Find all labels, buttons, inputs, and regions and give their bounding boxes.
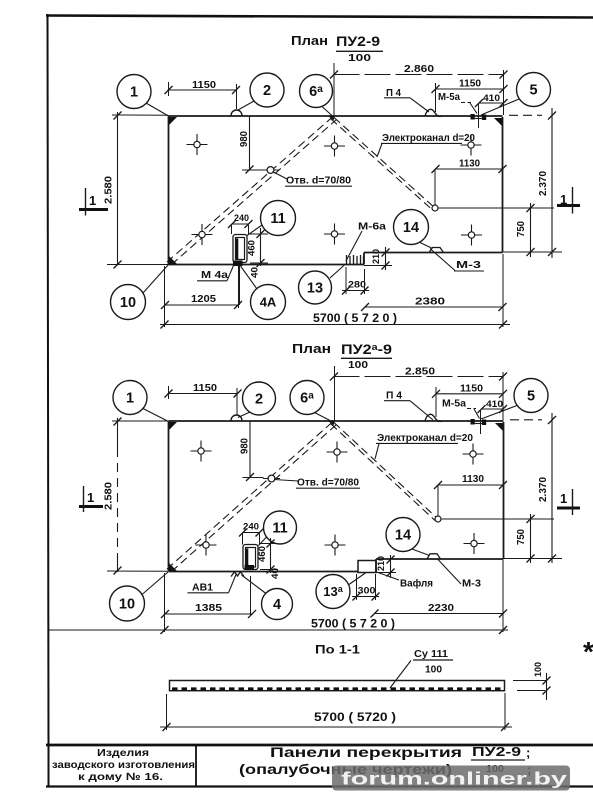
svg-text:10: 10 (120, 295, 136, 311)
M-6a hatch marks on bottom edge (346, 255, 348, 265)
svg-text:2.580: 2.580 (104, 482, 115, 510)
svg-text:1: 1 (126, 391, 134, 407)
dimension 1150 right top (435, 88, 504, 90)
svg-text:280: 280 (348, 280, 366, 291)
mounting point cross (191, 441, 212, 462)
dimension 240 slot (232, 223, 250, 225)
svg-text:1130: 1130 (462, 474, 484, 485)
dimension 2230 (374, 613, 504, 615)
axis circle 6a plan2 (290, 381, 324, 415)
lifting loop bump on top edge (axis 2) (231, 415, 242, 421)
svg-text:2: 2 (263, 83, 271, 99)
svg-text:410: 410 (483, 93, 500, 104)
corner embed mark bottom-left (filled triangle) (169, 256, 177, 264)
svg-text:2.370: 2.370 (538, 477, 549, 502)
dimension 980 (249, 116, 251, 170)
title block bottom border (46, 785, 593, 787)
hole Otv d=70/80 (262, 167, 279, 174)
mounting point cross (461, 135, 482, 156)
panel bottom step (363, 253, 365, 265)
svg-text:forum.onliner.by: forum.onliner.by (341, 769, 567, 789)
svg-text:240: 240 (243, 522, 259, 533)
extension line slot to dim 1205 (239, 266, 241, 305)
P4 wave hump on top edge (425, 109, 442, 116)
drawing sheet left frame line (48, 14, 49, 745)
dimension 210 step (385, 247, 387, 270)
corner embed mark top-left (filled triangle) (169, 117, 177, 125)
svg-text:5: 5 (529, 83, 537, 99)
corner embed mark top-right (filled triangle) (495, 423, 503, 431)
svg-text:2.580: 2.580 (104, 176, 115, 204)
svg-text:2.850: 2.850 (405, 367, 436, 378)
svg-text:Электроканал d=20: Электроканал d=20 (382, 133, 475, 144)
hatch dashes inside section bar (172, 687, 503, 690)
extension bottom right plan2 (504, 558, 563, 560)
svg-text:1: 1 (87, 490, 94, 505)
svg-text:4А: 4А (260, 295, 277, 310)
electro channel diagonal left (double dashed) (167, 117, 333, 263)
svg-text:100: 100 (425, 665, 442, 676)
dashed extension top right plan2 (510, 419, 542, 421)
dimension 1150 left top (168, 89, 237, 91)
svg-text:100: 100 (348, 52, 371, 64)
svg-text:Отв. d=70/80: Отв. d=70/80 (297, 477, 359, 489)
mounting point cross (187, 134, 208, 155)
svg-text:40: 40 (250, 267, 261, 278)
corner embed mark bottom-left (filled triangle) (169, 563, 177, 571)
dimension 280 (342, 290, 369, 292)
panel outline left edge (168, 421, 170, 572)
section mark 1-1 left (79, 188, 108, 216)
svg-text:1150: 1150 (192, 80, 216, 91)
svg-text:2.370: 2.370 (538, 171, 549, 196)
svg-text:5700 ( 5 7 2 0 ): 5700 ( 5 7 2 0 ) (313, 311, 397, 325)
detail circle 11 plan2 (264, 511, 297, 544)
corner embed mark top-left (filled triangle) (169, 422, 177, 430)
reference line from node to right dimensions (441, 518, 554, 520)
corner embed mark top-right (filled triangle) (494, 118, 502, 126)
axis circle 6a (300, 75, 333, 108)
svg-text:210: 210 (371, 249, 382, 264)
svg-text:1150: 1150 (459, 79, 481, 90)
apex junction arrow mark (328, 116, 336, 121)
svg-text:заводского изготовления: заводского изготовления (52, 760, 195, 771)
svg-text:460: 460 (257, 546, 268, 562)
svg-text:750: 750 (516, 221, 527, 237)
dimension 410 (479, 102, 505, 104)
dimension 1130 plan2 (438, 484, 504, 486)
axis circle 5 (517, 73, 551, 107)
axis circle 2 plan2 (243, 382, 276, 415)
svg-text:М 4а: М 4а (201, 269, 228, 281)
svg-text:Су 111: Су 111 (414, 648, 448, 660)
svg-text:300: 300 (358, 586, 376, 597)
svg-text:5700 ( 5720 ): 5700 ( 5720 ) (314, 710, 396, 724)
svg-text:1: 1 (89, 193, 96, 208)
detail circle 11 (261, 201, 296, 236)
svg-text:2230: 2230 (428, 603, 455, 614)
M-3 embed notch plan2 (427, 554, 441, 559)
panel outline bottom edge left part (169, 264, 365, 266)
svg-text:2: 2 (255, 392, 263, 408)
panel outline top edge (169, 420, 504, 422)
svg-text:Панели перекрытия: Панели перекрытия (270, 744, 462, 760)
axis circle 5 plan2 (514, 379, 548, 413)
svg-text:П 4: П 4 (386, 390, 402, 402)
watermark forum.onliner.by (332, 766, 570, 791)
svg-text:210: 210 (376, 556, 387, 571)
svg-text:План: План (292, 341, 331, 356)
electro channel diagonal right (double dashed) (334, 423, 438, 520)
AB1 anchor marks on bottom edge (231, 572, 244, 577)
dimension 2580 left plan2 (117, 418, 119, 448)
dimension 300 waffle (352, 596, 379, 598)
drawing sheet top frame line (46, 16, 593, 18)
svg-text:План: План (291, 33, 328, 48)
dimension 210 step plan2 (390, 555, 392, 578)
extension line to apex (333, 63, 335, 116)
panel outline left edge (168, 116, 170, 265)
svg-text:Отв. d=70/80: Отв. d=70/80 (286, 175, 351, 187)
svg-text:2.860: 2.860 (404, 64, 435, 75)
svg-text:5700 ( 5 7 2 0 ): 5700 ( 5 7 2 0 ) (311, 617, 395, 631)
svg-text:М-5а: М-5а (438, 92, 460, 103)
svg-text:4: 4 (273, 597, 281, 613)
dimension 5700 (5720) bottom plan 1 (160, 324, 510, 326)
svg-text:1: 1 (130, 85, 138, 101)
panel bottom step (375, 559, 377, 573)
svg-text:1205: 1205 (191, 294, 216, 305)
extension of bottom edge to dim 2580 (107, 264, 168, 266)
panel outline right edge (503, 422, 505, 559)
apex junction arrow mark (328, 421, 336, 426)
mounting point cross (461, 225, 482, 246)
dimension 1150 right top plan2 (436, 393, 504, 395)
svg-text:П 4: П 4 (386, 87, 401, 99)
detail circle 14 (394, 210, 429, 245)
title block left border (48, 745, 50, 787)
dimension 410 plan2 (481, 408, 504, 410)
panel outline bottom edge right part (376, 558, 504, 560)
waffle insert block (358, 561, 376, 573)
svg-text:*: * (583, 636, 593, 667)
section mark 1-1 right (557, 187, 580, 214)
svg-text:ПУ2-9: ПУ2-9 (336, 34, 380, 49)
detail circle 14 plan2 (386, 518, 420, 552)
panel outline right edge (502, 117, 504, 253)
svg-text:Электроканал d=20: Электроканал d=20 (377, 433, 473, 444)
anchor slot M4a window (233, 235, 247, 263)
dimension 1130 (435, 168, 503, 170)
dimension 750 right plan2 (530, 514, 532, 563)
mounting point cross (464, 533, 485, 554)
M-5a embed notch on top edge (471, 114, 475, 120)
P4 wave hump on top edge (425, 414, 442, 421)
svg-text:460: 460 (247, 240, 258, 256)
detail circle 13a plan2 (316, 575, 350, 609)
svg-text:1: 1 (560, 491, 567, 506)
extension of top edge to dim 2580 (112, 114, 168, 116)
dimension 240 slot plan2 (243, 532, 261, 534)
mounting point cross (324, 136, 345, 157)
svg-text:АВ1: АВ1 (192, 582, 213, 594)
extension lines to 100 dim (513, 680, 546, 682)
electro channel end node (432, 205, 438, 211)
dimension 460 slot (260, 228, 262, 266)
svg-text:5: 5 (527, 389, 535, 405)
title block top border (46, 744, 593, 747)
svg-text:10: 10 (119, 597, 135, 613)
svg-text:11: 11 (270, 211, 285, 227)
mounting point cross (327, 442, 348, 463)
electro channel diagonal left (double dashed) (167, 422, 333, 570)
svg-text:13: 13 (307, 281, 323, 297)
svg-text:14: 14 (395, 528, 411, 544)
detail circle 13 (299, 271, 332, 304)
hole Otv d=70/80 plan 2 (263, 475, 280, 482)
dimension 1385 (164, 613, 253, 615)
dimension 2370 right (551, 108, 553, 258)
axis circle 1 (117, 75, 151, 109)
detail circle 4 plan2 (262, 589, 293, 620)
svg-text:1130: 1130 (459, 159, 480, 170)
dimension 5700 (5720) bottom plan 2 (48, 629, 508, 631)
axis circle 10 (111, 285, 146, 320)
svg-text:Изделия: Изделия (97, 748, 149, 759)
svg-text:М-3: М-3 (462, 578, 481, 590)
dimension 1150 left top plan2 (168, 393, 239, 395)
svg-text:1150: 1150 (193, 383, 217, 394)
electro channel end node (435, 516, 441, 522)
panel outline bottom edge left part (169, 571, 359, 573)
dimension 2370 right plan2 (551, 413, 553, 563)
svg-text:980: 980 (240, 438, 251, 454)
dimension 750 right (530, 203, 532, 257)
dashed extension top right (509, 114, 542, 116)
svg-text:1: 1 (560, 192, 567, 207)
svg-text:ПУ2а-9: ПУ2а-9 (341, 342, 392, 357)
M-5a embed notch on top edge (471, 419, 475, 425)
axis circle 2 (250, 73, 284, 107)
svg-text:ПУ2-9: ПУ2-9 (472, 744, 521, 759)
mounting point cross (325, 535, 346, 556)
svg-text:100: 100 (348, 359, 368, 371)
svg-text:М-3: М-3 (456, 259, 481, 271)
svg-text:Вафля: Вафля (400, 578, 433, 590)
section mark 1-1 right plan2 (557, 489, 580, 515)
dimension 2850 overall top plan2 (334, 376, 504, 378)
panel outline bottom edge right part (364, 252, 503, 254)
dimension 2580 left (117, 112, 119, 265)
dimension 5700 (5720) section (166, 694, 168, 730)
svg-text:11: 11 (272, 521, 287, 537)
mounting point cross (196, 535, 217, 556)
title block divider (195, 745, 197, 787)
mounting point cross (324, 224, 345, 245)
section panel bar (170, 681, 505, 691)
svg-text:к дому № 16.: к дому № 16. (78, 771, 163, 783)
mounting point cross (463, 444, 484, 465)
svg-text:40: 40 (270, 568, 281, 579)
svg-text:240: 240 (234, 213, 249, 224)
axis circle 10 plan2 (110, 586, 145, 621)
svg-text:По 1-1: По 1-1 (315, 643, 360, 657)
svg-text:М-6а: М-6а (358, 222, 387, 233)
dimension 100 section height (546, 673, 548, 700)
lifting loop bump on top edge (axis 2) (231, 110, 242, 116)
svg-text:750: 750 (516, 529, 527, 545)
dimension 460 slot plan2 (270, 538, 272, 573)
detail circle 4A (251, 285, 286, 320)
extension bottom right (503, 251, 562, 253)
svg-text:1150: 1150 (460, 384, 483, 395)
svg-text:;: ; (526, 745, 530, 760)
svg-text:14: 14 (403, 220, 419, 236)
dimension 980 plan2 (249, 422, 251, 478)
M-3 embed notch on bottom right edge (429, 248, 444, 253)
electro channel diagonal right (double dashed) (334, 118, 435, 209)
anchor slot window plan2 (243, 545, 258, 570)
axis circle 1 plan2 (113, 381, 147, 415)
panel outline top edge (169, 115, 503, 117)
mounting point cross (192, 224, 213, 245)
svg-text:980: 980 (239, 131, 250, 147)
section mark 1-1 left plan2 (79, 486, 103, 512)
dimension 2380 (365, 306, 504, 308)
svg-text:100: 100 (533, 662, 544, 677)
svg-text:М-5а: М-5а (442, 399, 466, 410)
dimension 2860 overall top (334, 74, 505, 76)
reference line from node to right dimensions (438, 207, 554, 209)
svg-text:1385: 1385 (195, 603, 223, 614)
svg-text:410: 410 (486, 399, 503, 410)
dimension 1205 (165, 304, 239, 306)
svg-text:2380: 2380 (415, 297, 446, 308)
